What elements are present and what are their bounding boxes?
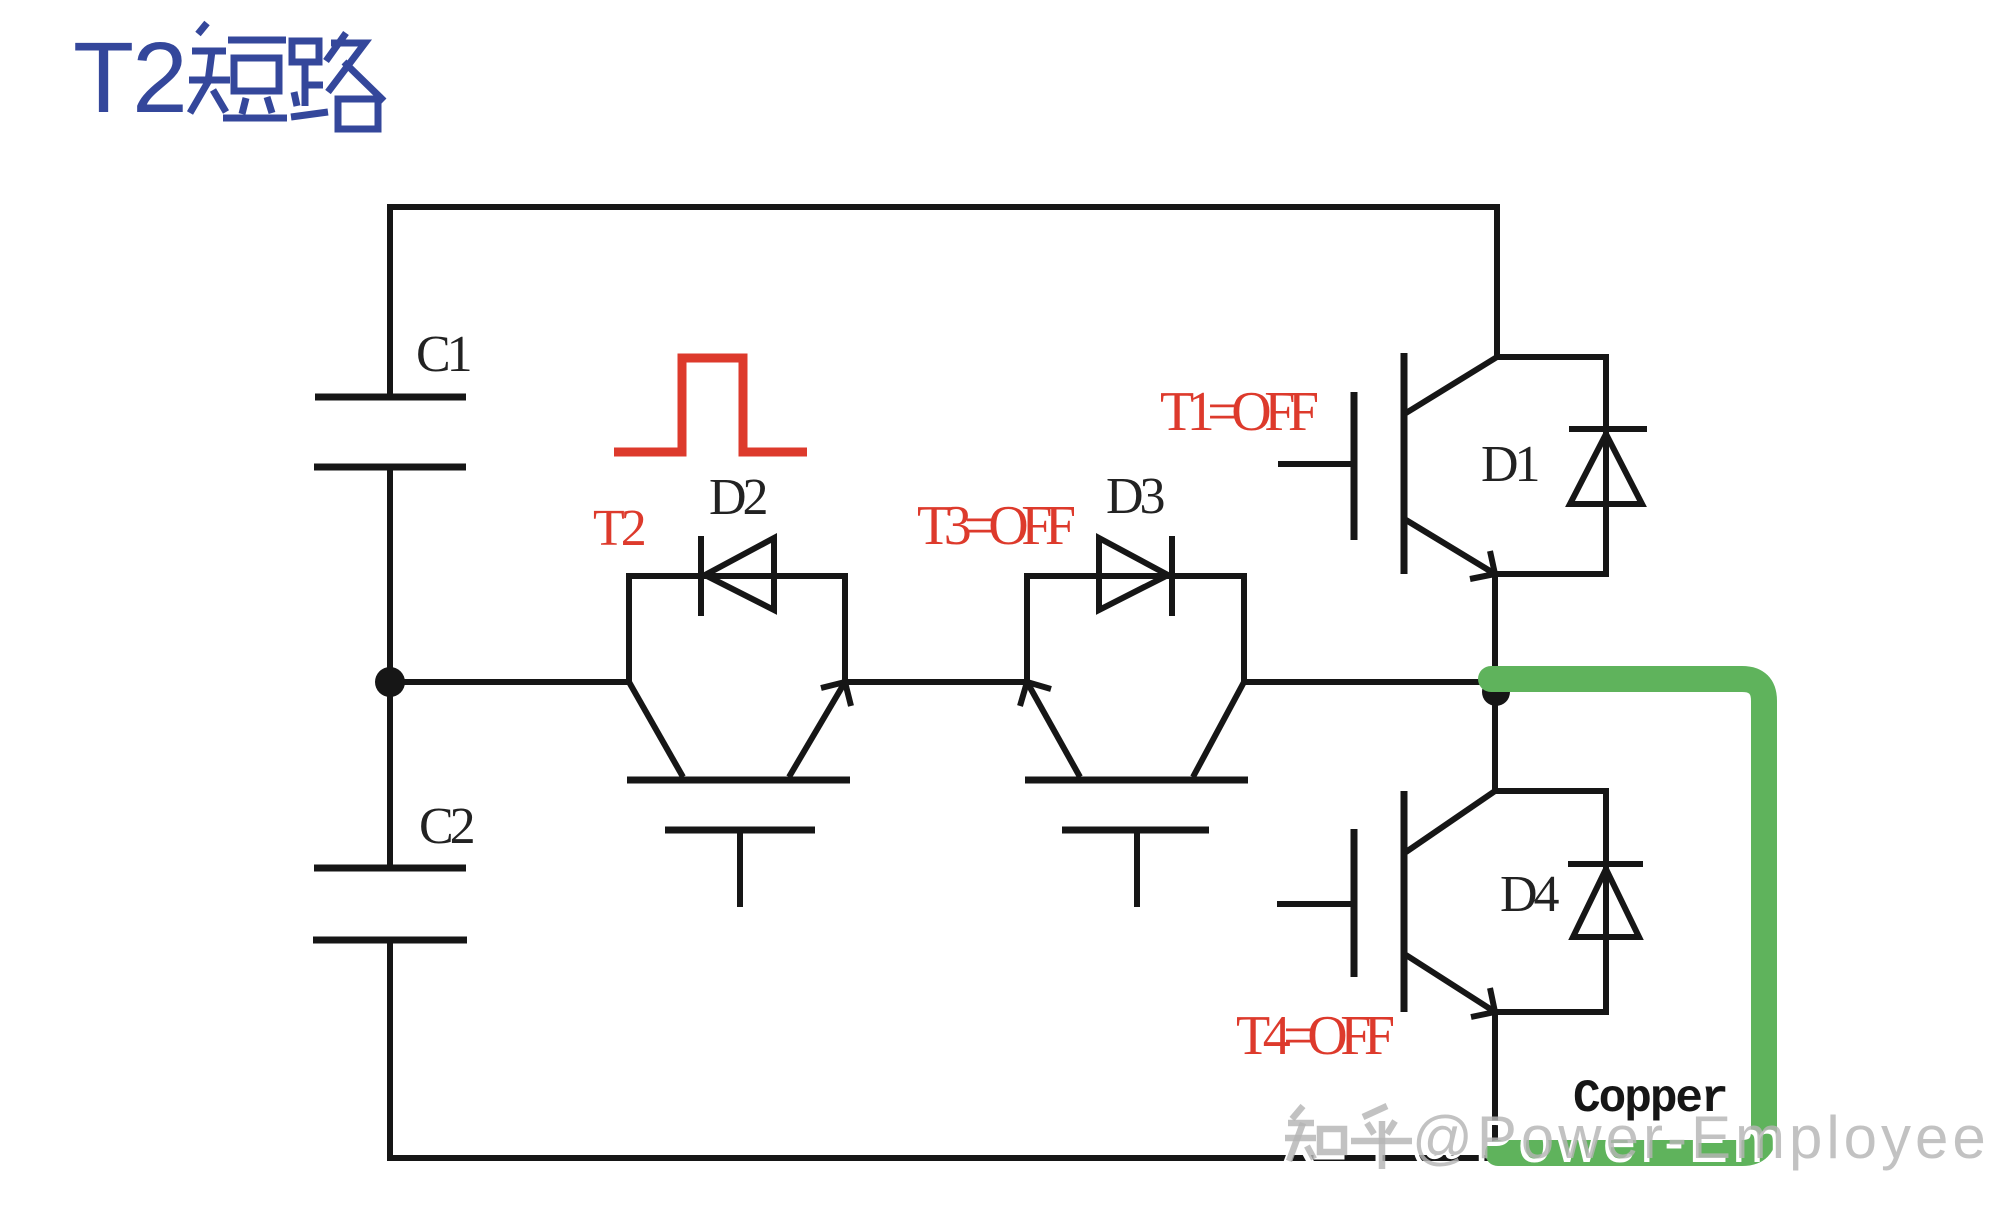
wire: mid bus segment 2 xyxy=(845,679,1027,685)
capacitor C1 xyxy=(314,397,466,467)
transistor T4 (IGBT) xyxy=(1277,791,1609,1017)
wire: left rail middle segment xyxy=(387,467,393,868)
wire: copper short-circuit path (green highlight) xyxy=(1491,679,1764,1153)
wire: mid bus segment 1 xyxy=(390,679,629,685)
diode D4 xyxy=(1495,791,1643,1012)
svg-text:T1=OFF: T1=OFF xyxy=(1160,381,1318,443)
diode D3 xyxy=(1099,536,1172,616)
wire: T4 emitter to bottom bus xyxy=(1492,1012,1498,1161)
wire: bottom bus xyxy=(387,1155,1498,1161)
svg-text:D2: D2 xyxy=(709,469,767,526)
svg-text:T3=OFF: T3=OFF xyxy=(917,495,1075,557)
wire: left rail upper segment xyxy=(387,204,393,397)
svg-text:T4=OFF: T4=OFF xyxy=(1236,1005,1394,1067)
diode D1 xyxy=(1495,357,1647,574)
transistor T1 (IGBT) xyxy=(1278,353,1609,579)
wire: mid bus segment 3 xyxy=(1244,679,1497,685)
svg-text:D3: D3 xyxy=(1106,468,1164,525)
node A: midpoint junction dot xyxy=(375,667,405,697)
gate pulse waveform xyxy=(614,358,807,452)
svg-text:D4: D4 xyxy=(1500,866,1560,923)
wire: top bus xyxy=(390,204,1500,210)
svg-text:T2: T2 xyxy=(593,500,645,557)
title char 短 xyxy=(189,23,287,118)
svg-text:D1: D1 xyxy=(1481,436,1538,493)
transistor T3 (IGBT, horizontal mirrored) xyxy=(1020,573,1248,907)
wire: T4 collector riser xyxy=(1492,690,1498,791)
svg-text:T2: T2 xyxy=(73,22,186,134)
watermark 知乎 @Power-Employee xyxy=(1282,1104,1990,1175)
wire: left rail lower segment xyxy=(387,940,393,1161)
diode D2 xyxy=(701,536,774,616)
title char 路 xyxy=(291,33,384,129)
svg-text:C2: C2 xyxy=(419,798,474,855)
transistor T2 (IGBT, horizontal) xyxy=(627,573,851,907)
capacitor C2 xyxy=(313,868,467,940)
node B: right mid junction dot xyxy=(1482,678,1510,706)
svg-text:C1: C1 xyxy=(416,326,470,383)
wire: T1 emitter to mid node xyxy=(1492,574,1498,694)
wire: T1 collector drop from top bus xyxy=(1494,204,1500,357)
